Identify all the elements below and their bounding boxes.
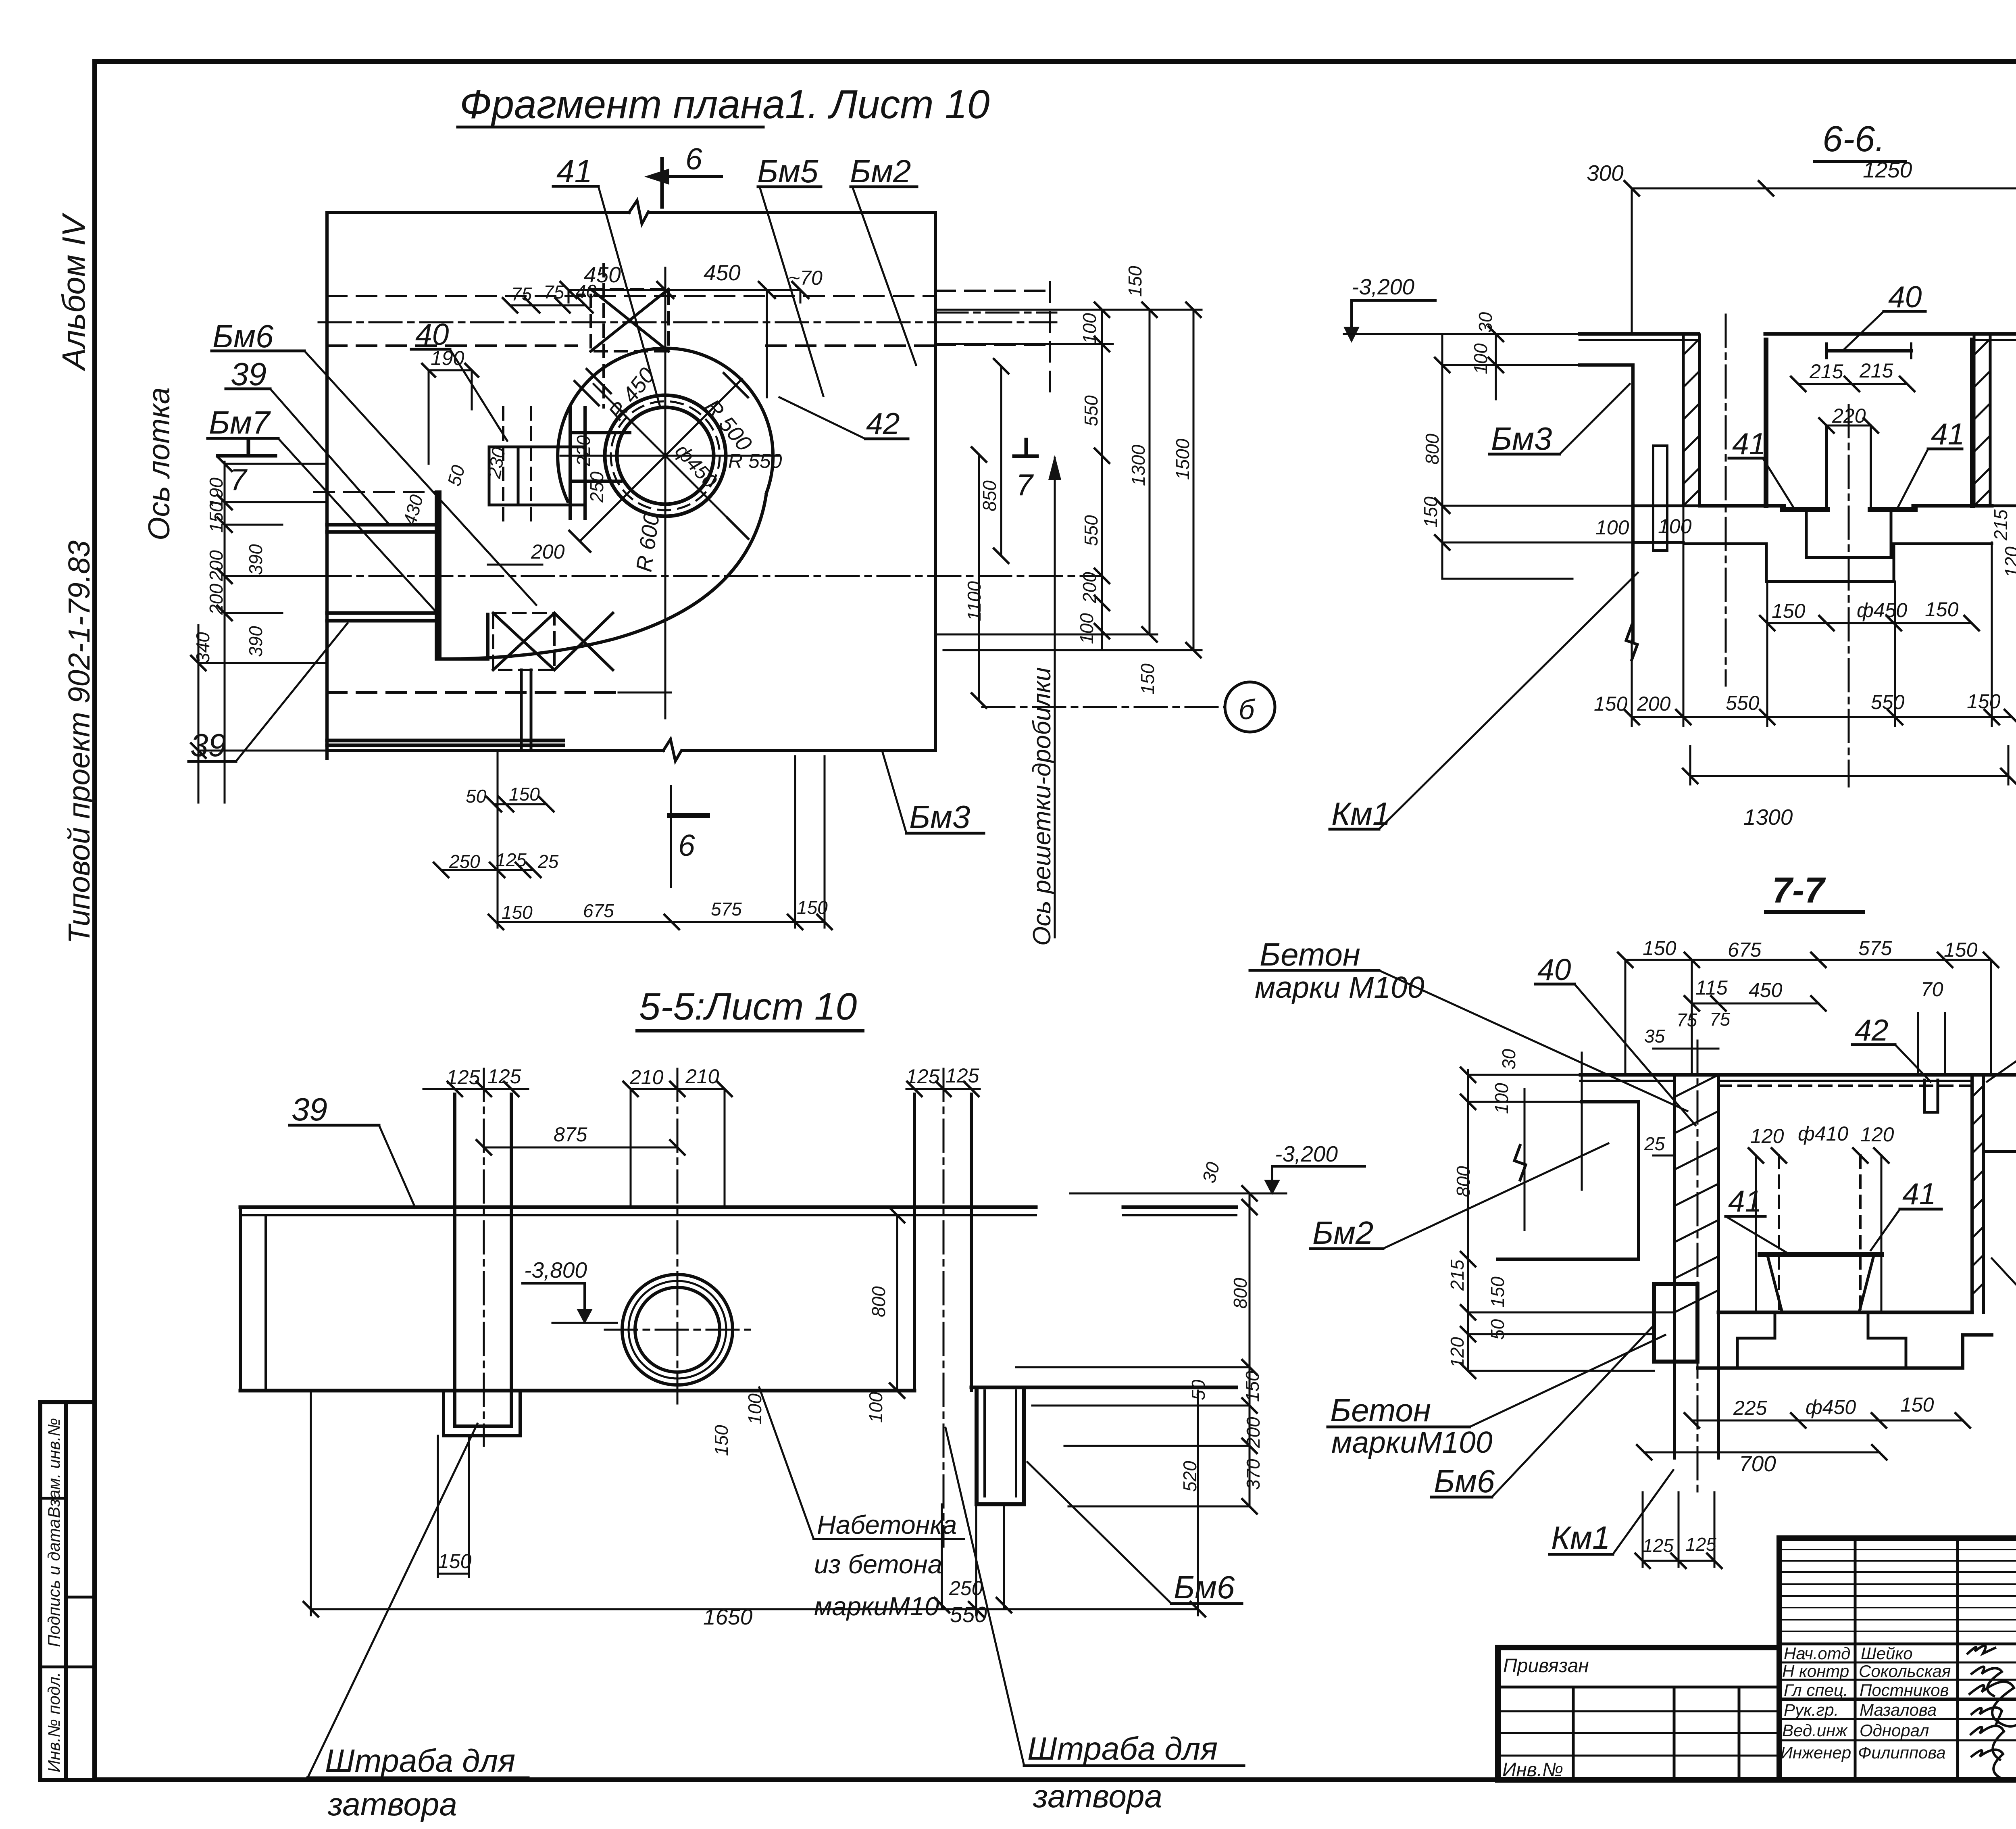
svg-text:Бм2: Бм2 [1312,1215,1373,1251]
svg-text:125: 125 [487,1065,521,1088]
svg-text:100: 100 [1658,515,1692,538]
svg-text:100: 100 [1470,343,1491,374]
svg-text:6: 6 [685,142,702,176]
svg-text:75: 75 [511,284,532,304]
svg-text:100: 100 [1076,613,1097,644]
svg-text:Ось решетки-дробилки: Ось решетки-дробилки [1028,667,1056,946]
svg-text:150: 150 [206,502,227,533]
svg-text:125: 125 [1685,1534,1716,1555]
svg-text:Бм2: Бм2 [850,153,911,189]
svg-text:125: 125 [446,1066,480,1089]
svg-text:1300: 1300 [1128,444,1149,486]
svg-text:5-5:Лист 10: 5-5:Лист 10 [639,985,857,1028]
svg-text:215: 215 [1859,359,1893,382]
svg-text:41: 41 [556,153,592,189]
svg-text:Однорал: Однорал [1860,1721,1929,1740]
svg-text:120: 120 [1750,1125,1784,1147]
svg-text:675: 675 [1728,938,1762,961]
svg-text:Бетон: Бетон [1330,1392,1431,1428]
svg-text:Н контр: Н контр [1782,1662,1849,1681]
svg-text:41: 41 [1728,1184,1762,1218]
svg-text:41: 41 [1931,417,1964,451]
svg-text:марки М100: марки М100 [1255,970,1425,1004]
svg-text:Инженер: Инженер [1781,1743,1851,1762]
svg-text:120: 120 [2001,546,2016,578]
svg-text:800: 800 [1422,434,1443,465]
svg-text:Км1: Км1 [1551,1520,1610,1556]
svg-text:Бетон: Бетон [1260,936,1360,972]
svg-text:Взам. инв.№: Взам. инв.№ [44,1418,63,1518]
svg-text:150: 150 [1420,496,1441,528]
svg-text:220: 220 [1832,405,1866,427]
svg-text:150: 150 [797,897,828,918]
svg-text:1300: 1300 [1743,805,1793,830]
svg-text:39: 39 [231,356,267,392]
svg-text:Постников: Постников [1860,1681,1949,1700]
svg-text:42: 42 [866,407,900,440]
svg-text:575: 575 [711,899,742,920]
svg-text:-3,200: -3,200 [1275,1141,1338,1166]
svg-text:Филиппова: Филиппова [1858,1743,1946,1762]
svg-text:Штраба для: Штраба для [325,1743,515,1779]
svg-text:150: 150 [1137,663,1158,694]
svg-text:маркиМ100: маркиМ100 [1331,1425,1493,1459]
svg-text:39: 39 [292,1091,327,1127]
svg-text:41: 41 [1902,1177,1936,1211]
svg-text:б: б [1239,694,1256,725]
svg-text:30: 30 [1475,312,1496,333]
svg-text:R 550: R 550 [728,450,782,472]
svg-text:200: 200 [206,550,227,582]
svg-text:Ось лотка: Ось лотка [142,387,176,540]
svg-text:200: 200 [1637,692,1671,715]
svg-text:Сокольская: Сокольская [1859,1662,1951,1681]
svg-text:75: 75 [1677,1009,1697,1030]
svg-text:1500: 1500 [1172,438,1193,480]
svg-text:200: 200 [531,540,565,563]
svg-text:75: 75 [1710,1009,1731,1030]
svg-text:-3,200: -3,200 [1352,274,1414,299]
svg-text:150: 150 [438,1550,472,1572]
svg-text:Типовой проект 902-1-79.83: Типовой проект 902-1-79.83 [62,540,96,944]
svg-text:41: 41 [1732,427,1766,461]
svg-text:ф450: ф450 [1857,599,1907,621]
svg-text:Штраба для: Штраба для [1027,1731,1218,1766]
svg-text:150: 150 [1487,1276,1508,1308]
svg-text:300: 300 [1587,161,1624,186]
svg-text:450: 450 [704,260,741,285]
svg-text:250: 250 [586,471,607,503]
svg-text:125: 125 [496,849,527,870]
svg-text:Альбом IV: Альбом IV [56,213,92,371]
svg-text:40: 40 [576,281,597,302]
svg-text:220: 220 [573,435,594,467]
svg-text:6-6.: 6-6. [1822,119,1885,159]
svg-text:850: 850 [979,480,1000,511]
svg-text:450: 450 [1749,979,1783,1001]
svg-text:39: 39 [190,727,226,763]
svg-text:200: 200 [206,584,227,615]
svg-text:150: 150 [1925,598,1959,621]
svg-text:390: 390 [245,544,266,575]
svg-text:Шейко: Шейко [1861,1644,1913,1663]
svg-text:затвора: затвора [327,1786,457,1822]
svg-text:150: 150 [1772,600,1806,622]
svg-text:100: 100 [865,1392,886,1423]
svg-text:40: 40 [1537,953,1571,986]
svg-text:1250: 1250 [1863,157,1912,182]
svg-text:7: 7 [230,463,248,496]
svg-text:150: 150 [1594,692,1628,715]
svg-text:Бм6: Бм6 [1434,1463,1495,1499]
svg-text:Инв.№: Инв.№ [1502,1759,1563,1781]
svg-text:30: 30 [1498,1049,1519,1070]
svg-text:7-7: 7-7 [1772,870,1826,911]
svg-text:150: 150 [1242,1371,1263,1402]
svg-text:1100: 1100 [964,581,985,621]
svg-text:~70: ~70 [788,267,823,289]
svg-text:800: 800 [868,1286,889,1317]
svg-text:40: 40 [415,317,449,351]
svg-text:Привязан: Привязан [1503,1655,1589,1677]
svg-text:210: 210 [685,1065,719,1088]
svg-text:250: 250 [449,851,480,872]
svg-text:250: 250 [949,1577,983,1600]
svg-text:550: 550 [1081,515,1102,546]
svg-text:Бм6: Бм6 [212,318,274,354]
svg-text:225: 225 [1733,1397,1767,1419]
svg-text:Набетонка: Набетонка [817,1510,957,1539]
svg-text:370: 370 [1243,1459,1264,1490]
svg-text:120: 120 [1860,1123,1894,1146]
svg-text:7: 7 [1016,468,1034,502]
svg-text:Мазалова: Мазалова [1860,1700,1937,1719]
svg-text:125: 125 [946,1064,979,1087]
svg-text:1650: 1650 [703,1604,753,1629]
svg-text:150: 150 [1944,938,1978,961]
svg-text:575: 575 [1858,937,1892,959]
svg-text:100: 100 [1595,516,1629,539]
svg-text:затвора: затвора [1033,1778,1162,1814]
svg-text:115: 115 [1695,976,1728,999]
svg-text:75: 75 [544,282,564,302]
svg-text:190: 190 [431,347,464,369]
svg-text:Бм5: Бм5 [757,153,818,189]
svg-text:ф410: ф410 [1798,1122,1848,1145]
svg-text:150: 150 [711,1425,732,1456]
svg-text:Нач.отд: Нач.отд [1784,1644,1850,1663]
svg-text:ф450: ф450 [1806,1396,1856,1418]
svg-text:70: 70 [1921,978,1943,1001]
svg-text:Бм7: Бм7 [209,405,271,440]
svg-text:120: 120 [1447,1337,1468,1368]
svg-text:100: 100 [1079,313,1100,344]
svg-text:800: 800 [1453,1166,1474,1197]
svg-text:150: 150 [1125,266,1145,297]
svg-text:маркиМ10: маркиМ10 [814,1591,939,1621]
svg-text:Вед.инж: Вед.инж [1782,1721,1848,1740]
svg-text:Бм6: Бм6 [1174,1569,1235,1605]
svg-text:Рук.гр.: Рук.гр. [1784,1700,1839,1719]
svg-text:125: 125 [1643,1535,1674,1556]
svg-text:550: 550 [1081,395,1102,426]
svg-text:700: 700 [1739,1451,1776,1476]
svg-text:215: 215 [1990,509,2011,541]
svg-text:150: 150 [1643,937,1677,959]
svg-text:Фрагмент плана1. Лист 10: Фрагмент плана1. Лист 10 [460,82,990,127]
svg-text:200: 200 [1079,572,1100,603]
svg-text:150: 150 [1900,1393,1934,1416]
svg-text:125: 125 [906,1065,940,1088]
svg-text:340: 340 [192,632,213,663]
svg-text:40: 40 [1888,280,1922,314]
svg-text:Гл спец.: Гл спец. [1784,1681,1848,1700]
svg-text:215: 215 [1447,1260,1468,1291]
svg-text:6: 6 [678,828,695,862]
svg-text:Инв.№ подл.: Инв.№ подл. [44,1672,63,1773]
svg-text:800: 800 [1230,1278,1251,1309]
svg-text:150: 150 [502,902,533,923]
svg-text:150: 150 [509,784,540,805]
svg-text:210: 210 [629,1066,664,1089]
svg-text:150: 150 [1967,690,2001,713]
svg-text:-3,800: -3,800 [524,1258,587,1283]
svg-text:100: 100 [1491,1083,1512,1114]
svg-text:25: 25 [537,851,559,872]
svg-text:42: 42 [1855,1013,1888,1047]
svg-text:Подпись и дата: Подпись и дата [44,1519,63,1647]
svg-text:875: 875 [554,1123,587,1146]
svg-text:50: 50 [1487,1319,1508,1340]
svg-text:35: 35 [1644,1026,1665,1047]
svg-text:50: 50 [466,786,487,807]
svg-text:215: 215 [1809,360,1843,383]
svg-text:Бм3: Бм3 [909,799,970,835]
svg-text:из бетона: из бетона [814,1550,942,1579]
svg-text:Бм3: Бм3 [1491,421,1552,457]
svg-text:550: 550 [950,1602,987,1627]
svg-text:550: 550 [1726,692,1760,714]
svg-text:390: 390 [245,626,266,657]
svg-text:25: 25 [1644,1133,1665,1154]
svg-text:550: 550 [1871,691,1905,713]
svg-text:200: 200 [1243,1417,1264,1448]
svg-text:675: 675 [583,900,614,921]
